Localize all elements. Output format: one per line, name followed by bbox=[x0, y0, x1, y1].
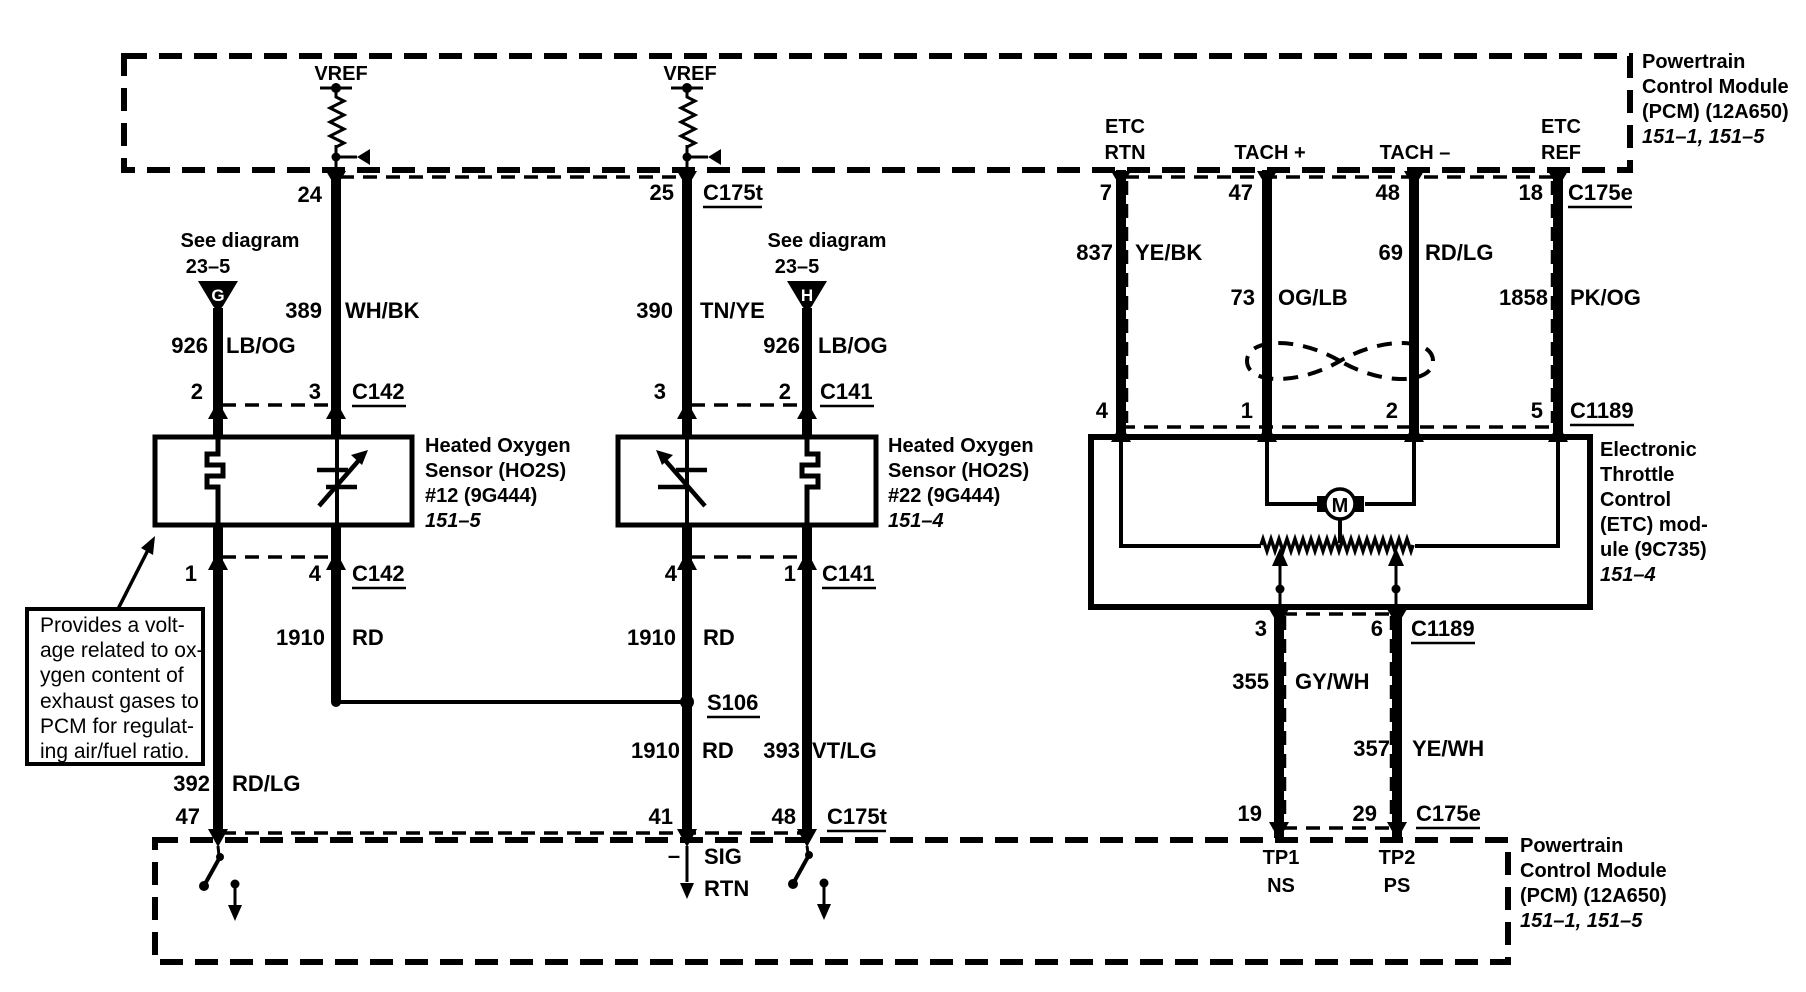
pin label 48 (top) bbox=[1376, 180, 1400, 205]
pin label 2 (C1189 top) bbox=[1386, 398, 1398, 423]
svg-text:PCM for regulat-: PCM for regulat- bbox=[40, 715, 194, 738]
svg-text:2: 2 bbox=[191, 379, 203, 404]
svg-text:151–4: 151–4 bbox=[888, 510, 944, 532]
pin label 2 (C141 top) bbox=[779, 379, 791, 404]
pin label 25 bbox=[650, 180, 674, 205]
svg-text:1910: 1910 bbox=[627, 625, 676, 650]
svg-text:ETC: ETC bbox=[1541, 116, 1581, 138]
net label TP2 PS bbox=[1379, 847, 1416, 897]
pin label 3 (C142 top) bbox=[309, 379, 321, 404]
ETC internal wire to motor (left) bbox=[1267, 437, 1317, 504]
HO2S #12 label bbox=[425, 435, 571, 532]
svg-text:WH/BK: WH/BK bbox=[345, 298, 420, 323]
svg-text:RD: RD bbox=[703, 625, 735, 650]
svg-text:Heated Oxygen: Heated Oxygen bbox=[888, 435, 1034, 457]
triangle connector H bbox=[787, 281, 827, 312]
svg-text:YE/BK: YE/BK bbox=[1135, 240, 1202, 265]
wire label 926 LB/OG (left) bbox=[171, 333, 295, 358]
see diagram note (middle) bbox=[768, 230, 887, 278]
variable sensing element (HO2S#22) bbox=[656, 437, 707, 525]
svg-text:1: 1 bbox=[1241, 398, 1253, 423]
svg-text:age related to ox-: age related to ox- bbox=[40, 639, 203, 662]
connector label C175t (top) bbox=[703, 180, 764, 207]
wire label 69 RD/LG bbox=[1379, 240, 1494, 265]
ETC internal wire to motor (right) bbox=[1365, 437, 1414, 504]
wire 1858 PK/OG (PCM 18 ETC REF to ETC 5) bbox=[1553, 170, 1563, 437]
pin label 4 (C1189 top) bbox=[1096, 398, 1109, 423]
splice S106 bbox=[331, 695, 694, 709]
svg-text:(PCM) (12A650): (PCM) (12A650) bbox=[1520, 885, 1667, 907]
connector label C175e (bottom) bbox=[1416, 801, 1481, 828]
connector C175e dashed line (bottom) bbox=[1283, 826, 1393, 829]
svg-text:C142: C142 bbox=[352, 379, 405, 404]
connector C142 dashed line (top) bbox=[222, 403, 332, 406]
twisted pair symbol (TACH+/TACH-) bbox=[1247, 343, 1433, 379]
SIG RTN label bbox=[668, 843, 749, 901]
svg-text:C1189: C1189 bbox=[1411, 616, 1475, 641]
pin arrow PCM 41 (bottom) bbox=[677, 829, 697, 847]
connector C141 dashed line (top) bbox=[691, 403, 802, 406]
svg-text:41: 41 bbox=[649, 804, 673, 829]
svg-text:C175e: C175e bbox=[1416, 801, 1481, 826]
triangle connector G bbox=[198, 281, 238, 312]
wire 392 RD/LG (HO2S#12 pin 1 to PCM 47) bbox=[213, 525, 223, 838]
svg-text:–: – bbox=[668, 843, 680, 868]
pin label 18 bbox=[1519, 180, 1543, 205]
wire label 389 WH/BK bbox=[285, 298, 419, 323]
wire 390 TN/YE (PCM 25 to HO2S#22 pin 3) bbox=[682, 170, 692, 437]
connector C175e dashed line (top) bbox=[1125, 175, 1554, 178]
PCM top module box (Powertrain Control Module) bbox=[124, 56, 1630, 170]
pin label 1 (C141 bottom) bbox=[784, 561, 796, 586]
svg-text:48: 48 bbox=[1376, 180, 1400, 205]
potentiometer wiper arrow (TP2) bbox=[1388, 548, 1404, 606]
svg-text:47: 47 bbox=[1229, 180, 1253, 205]
svg-text:#12 (9G444): #12 (9G444) bbox=[425, 485, 537, 507]
pin arrow PCM 48 (TACH-) bbox=[1404, 171, 1424, 188]
pin arrow PCM 25 bbox=[677, 171, 697, 188]
svg-text:29: 29 bbox=[1353, 801, 1377, 826]
pin label 1 (C1189 top) bbox=[1241, 398, 1253, 423]
pin arrow ETC 1 bbox=[1257, 423, 1277, 442]
svg-text:24: 24 bbox=[298, 182, 323, 207]
wire label 393 VT/LG bbox=[763, 738, 877, 763]
svg-text:357: 357 bbox=[1353, 736, 1390, 761]
svg-text:ing air/fuel ratio.: ing air/fuel ratio. bbox=[40, 740, 189, 763]
wire label 837 YE/BK bbox=[1076, 240, 1202, 265]
pin arrow PCM 19 bbox=[1269, 822, 1289, 840]
connector label C1189 (bottom) bbox=[1411, 616, 1475, 643]
motor M1 bbox=[1317, 489, 1364, 543]
svg-text:VT/LG: VT/LG bbox=[812, 738, 877, 763]
svg-text:C141: C141 bbox=[822, 561, 875, 586]
resistor (VREF pull-up 1) bbox=[330, 88, 344, 152]
wire label 392 RD/LG bbox=[173, 771, 300, 796]
pin label 47 (bottom) bbox=[176, 804, 200, 829]
ETC module box (Electronic Throttle Control) bbox=[1091, 437, 1590, 607]
svg-text:926: 926 bbox=[171, 333, 208, 358]
node junction with output stub 1 bbox=[332, 145, 371, 170]
svg-text:3: 3 bbox=[1255, 616, 1267, 641]
resistor (VREF pull-up 2) bbox=[681, 88, 695, 152]
wire 357 YE/WH (ETC 6 to PCM 29) bbox=[1392, 607, 1402, 838]
pin arrow ETC 2 bbox=[1404, 423, 1424, 442]
svg-text:Provides a volt-: Provides a volt- bbox=[40, 614, 185, 637]
connector C175t dashed line (bottom) bbox=[222, 831, 803, 834]
HO2S #22 sensor box bbox=[618, 437, 876, 525]
svg-text:18: 18 bbox=[1519, 180, 1543, 205]
pin label 24 bbox=[298, 182, 323, 207]
pin label 3 (C141 top) bbox=[654, 379, 666, 404]
svg-text:2: 2 bbox=[779, 379, 791, 404]
svg-text:OG/LB: OG/LB bbox=[1278, 285, 1348, 310]
pin arrow PCM 48 (bottom) bbox=[797, 829, 817, 847]
svg-text:355: 355 bbox=[1232, 669, 1269, 694]
harness dashed outline (right wire group) bbox=[1127, 181, 1552, 423]
svg-text:1910: 1910 bbox=[276, 625, 325, 650]
svg-text:389: 389 bbox=[285, 298, 322, 323]
wire 389 WH/BK (PCM 24 to HO2S#12 pin 3) bbox=[331, 170, 341, 437]
svg-text:Control Module: Control Module bbox=[1520, 860, 1667, 882]
svg-text:23–5: 23–5 bbox=[775, 256, 820, 278]
svg-text:Sensor (HO2S): Sensor (HO2S) bbox=[425, 460, 566, 482]
splice label S106 bbox=[707, 690, 760, 717]
svg-text:Sensor (HO2S): Sensor (HO2S) bbox=[888, 460, 1029, 482]
connector label C1189 (top) bbox=[1570, 398, 1634, 425]
svg-text:TP1: TP1 bbox=[1263, 847, 1300, 869]
wire 1910 RD / SIG RTN (HO2S#22 pin 4 to PCM 41) bbox=[682, 525, 692, 838]
pin label 7 bbox=[1100, 180, 1112, 205]
wire label 926 LB/OG (middle) bbox=[763, 333, 887, 358]
pin label 47 (top) bbox=[1229, 180, 1253, 205]
svg-text:ETC: ETC bbox=[1105, 116, 1145, 138]
svg-text:926: 926 bbox=[763, 333, 800, 358]
svg-text:151–1, 151–5: 151–1, 151–5 bbox=[1642, 126, 1765, 148]
switch to ground (PCM pin 48) bbox=[788, 846, 813, 889]
wire 926 LB/OG (H to HO2S#22 pin 2) bbox=[802, 308, 812, 437]
svg-text:4: 4 bbox=[1096, 398, 1109, 423]
svg-text:1: 1 bbox=[185, 561, 197, 586]
pin arrow C142-3 bbox=[326, 401, 346, 419]
connector label C141 (bottom) bbox=[822, 561, 876, 588]
svg-text:69: 69 bbox=[1379, 240, 1403, 265]
svg-text:ule (9C735): ule (9C735) bbox=[1600, 539, 1707, 561]
PCM bottom module label bbox=[1520, 835, 1667, 932]
wire 69 RD/LG (PCM 48 TACH- to ETC 2) bbox=[1409, 170, 1419, 437]
wire label 1858 PK/OG bbox=[1499, 285, 1641, 310]
wire label 73 OG/LB bbox=[1231, 285, 1348, 310]
svg-text:C175t: C175t bbox=[827, 804, 888, 829]
pin label 48 (bottom) bbox=[772, 804, 796, 829]
svg-text:6: 6 bbox=[1371, 616, 1383, 641]
connector label C142 (bottom) bbox=[352, 561, 406, 588]
pin label 2 (C142 top) bbox=[191, 379, 203, 404]
svg-text:PS: PS bbox=[1384, 875, 1411, 897]
VREF terminal node 2 bbox=[671, 83, 703, 93]
net label ETC RTN bbox=[1104, 116, 1145, 164]
svg-text:M: M bbox=[1332, 495, 1349, 517]
PCM bottom module box (Powertrain Control Module) bbox=[155, 840, 1508, 962]
svg-text:RD/LG: RD/LG bbox=[1425, 240, 1493, 265]
pin arrow ETC 3 (out) bbox=[1269, 609, 1289, 626]
ETC module label bbox=[1600, 439, 1708, 586]
svg-text:23–5: 23–5 bbox=[186, 256, 231, 278]
svg-text:RD: RD bbox=[702, 738, 734, 763]
pin arrow C142-2 bbox=[208, 401, 228, 419]
wire 926 LB/OG (G to HO2S#12 pin 2) bbox=[213, 308, 223, 437]
VREF supply 2 label bbox=[663, 63, 716, 85]
wire label 1910 RD (middle lower) bbox=[631, 738, 734, 763]
svg-text:C1189: C1189 bbox=[1570, 398, 1634, 423]
pin arrow C141-2 bbox=[797, 401, 817, 419]
svg-text:#22 (9G444): #22 (9G444) bbox=[888, 485, 1000, 507]
pin arrow ETC 4 bbox=[1111, 423, 1131, 442]
svg-text:SIG: SIG bbox=[704, 844, 742, 869]
pin arrow PCM 18 bbox=[1548, 171, 1568, 188]
ETC internal wire to potentiometer (right) bbox=[1415, 437, 1558, 546]
svg-text:TACH –: TACH – bbox=[1380, 142, 1451, 164]
wire 355 GY/WH (ETC 3 to PCM 19) bbox=[1274, 607, 1284, 838]
svg-text:VREF: VREF bbox=[663, 63, 716, 85]
svg-text:25: 25 bbox=[650, 180, 674, 205]
connector label C175e (top) bbox=[1568, 180, 1633, 207]
svg-text:Heated Oxygen: Heated Oxygen bbox=[425, 435, 571, 457]
svg-text:47: 47 bbox=[176, 804, 200, 829]
svg-text:TACH +: TACH + bbox=[1234, 142, 1305, 164]
ETC internal wire to potentiometer (left) bbox=[1121, 437, 1261, 546]
svg-text:LB/OG: LB/OG bbox=[226, 333, 296, 358]
connector C142 dashed line (bottom) bbox=[222, 555, 332, 558]
pin arrow PCM 29 bbox=[1387, 822, 1407, 840]
svg-text:See diagram: See diagram bbox=[181, 230, 300, 252]
svg-text:73: 73 bbox=[1231, 285, 1255, 310]
svg-text:4: 4 bbox=[665, 561, 678, 586]
pin label 6 (C1189 bottom) bbox=[1371, 616, 1383, 641]
svg-text:YE/WH: YE/WH bbox=[1412, 736, 1484, 761]
svg-text:C175e: C175e bbox=[1568, 180, 1633, 205]
pin arrow PCM 24 bbox=[326, 171, 346, 188]
svg-text:RTN: RTN bbox=[704, 876, 749, 901]
wire 393 VT/LG (HO2S#22 pin 1 to PCM 48) bbox=[802, 525, 812, 838]
pin arrow PCM 47 (bottom) bbox=[208, 829, 228, 847]
potentiometer (throttle position) bbox=[1261, 539, 1413, 551]
pin arrow C142-1 bbox=[208, 551, 228, 570]
node junction with output stub 2 bbox=[683, 145, 722, 170]
svg-text:Control Module: Control Module bbox=[1642, 76, 1789, 98]
HO2S #22 label bbox=[888, 435, 1034, 532]
wire label 1910 RD (left) bbox=[276, 625, 384, 650]
wire 837 YE/BK (PCM 7 ETC RTN to ETC 4) bbox=[1116, 170, 1126, 437]
callout box (oxygen sensor note) bbox=[27, 609, 203, 764]
switch to ground (PCM pin 47) bbox=[199, 846, 224, 891]
heater element (HO2S#22) bbox=[802, 437, 818, 525]
svg-text:See diagram: See diagram bbox=[768, 230, 887, 252]
svg-text:RTN: RTN bbox=[1104, 142, 1145, 164]
svg-text:3: 3 bbox=[654, 379, 666, 404]
svg-text:G: G bbox=[211, 286, 224, 305]
svg-text:151–5: 151–5 bbox=[425, 510, 481, 532]
svg-text:393: 393 bbox=[763, 738, 800, 763]
svg-text:390: 390 bbox=[636, 298, 673, 323]
svg-text:ygen content of: ygen content of bbox=[40, 664, 184, 687]
pin label 19 bbox=[1238, 801, 1262, 826]
svg-text:TP2: TP2 bbox=[1379, 847, 1416, 869]
pin label 4 (C142 bottom) bbox=[309, 561, 322, 586]
svg-text:PK/OG: PK/OG bbox=[1570, 285, 1641, 310]
pin arrow C142-4 bbox=[326, 551, 346, 570]
pin label 29 bbox=[1353, 801, 1377, 826]
wire 73 OG/LB (PCM 47 TACH+ to ETC 1) bbox=[1262, 170, 1272, 437]
svg-text:4: 4 bbox=[309, 561, 322, 586]
wire label 390 TN/YE bbox=[636, 298, 765, 323]
VREF supply 1 label bbox=[314, 63, 367, 85]
svg-text:392: 392 bbox=[173, 771, 210, 796]
HO2S #12 sensor box bbox=[155, 437, 412, 525]
svg-text:837: 837 bbox=[1076, 240, 1113, 265]
wire label 355 GY/WH bbox=[1232, 669, 1369, 694]
pin arrow ETC 6 (out) bbox=[1387, 609, 1407, 626]
heater element (HO2S#12) bbox=[207, 437, 223, 525]
svg-text:48: 48 bbox=[772, 804, 796, 829]
connector label C175t (bottom) bbox=[827, 804, 888, 831]
variable sensing element (HO2S#12) bbox=[317, 437, 368, 525]
harness dashed outline (TP wire pair) bbox=[1285, 616, 1391, 824]
wire 1910 RD (HO2S#12 pin 4 to S106) bbox=[331, 525, 341, 702]
connector C1189 dashed line (top) bbox=[1121, 425, 1558, 428]
svg-text:1910: 1910 bbox=[631, 738, 680, 763]
svg-text:19: 19 bbox=[1238, 801, 1262, 826]
svg-text:Powertrain: Powertrain bbox=[1520, 835, 1623, 857]
svg-text:RD: RD bbox=[352, 625, 384, 650]
callout arrow bbox=[118, 536, 155, 609]
connector label C141 (top) bbox=[820, 379, 874, 406]
connector C141 dashed line (bottom) bbox=[691, 555, 802, 558]
svg-text:NS: NS bbox=[1267, 875, 1295, 897]
svg-text:Powertrain: Powertrain bbox=[1642, 51, 1745, 73]
pin label 5 (C1189 top) bbox=[1531, 398, 1543, 423]
net label TP1 NS bbox=[1263, 847, 1300, 897]
pin label 4 (C141 bottom) bbox=[665, 561, 678, 586]
ground arrow (near pin 48) bbox=[817, 879, 831, 921]
pin arrow ETC 5 bbox=[1548, 423, 1568, 442]
pin arrow PCM 7 bbox=[1111, 171, 1131, 188]
svg-text:GY/WH: GY/WH bbox=[1295, 669, 1370, 694]
pin label 41 (bottom) bbox=[649, 804, 673, 829]
svg-text:Throttle: Throttle bbox=[1600, 464, 1674, 486]
pin label 3 (C1189 bottom) bbox=[1255, 616, 1267, 641]
potentiometer wiper arrow (TP1) bbox=[1272, 548, 1288, 606]
svg-text:1858: 1858 bbox=[1499, 285, 1548, 310]
svg-text:C141: C141 bbox=[820, 379, 873, 404]
svg-text:RD/LG: RD/LG bbox=[232, 771, 300, 796]
pin arrow C141-3 bbox=[677, 401, 697, 419]
svg-text:5: 5 bbox=[1531, 398, 1543, 423]
wire label 1910 RD (middle upper) bbox=[627, 625, 735, 650]
svg-text:C175t: C175t bbox=[703, 180, 764, 205]
svg-text:LB/OG: LB/OG bbox=[818, 333, 888, 358]
PCM top module label bbox=[1642, 51, 1789, 148]
pin arrow PCM 47 (TACH+) bbox=[1257, 171, 1277, 188]
svg-text:C142: C142 bbox=[352, 561, 405, 586]
svg-text:151–4: 151–4 bbox=[1600, 564, 1656, 586]
svg-text:Control: Control bbox=[1600, 489, 1671, 511]
svg-text:7: 7 bbox=[1100, 180, 1112, 205]
VREF terminal node 1 bbox=[320, 83, 352, 93]
svg-text:1: 1 bbox=[784, 561, 796, 586]
pin arrow C141-4 bbox=[677, 551, 697, 570]
wire label 357 YE/WH bbox=[1353, 736, 1484, 761]
svg-text:3: 3 bbox=[309, 379, 321, 404]
svg-text:REF: REF bbox=[1541, 142, 1581, 164]
net label TACH + bbox=[1234, 142, 1305, 164]
connector label C142 (top) bbox=[352, 379, 406, 406]
svg-text:H: H bbox=[801, 286, 813, 305]
svg-text:VREF: VREF bbox=[314, 63, 367, 85]
net label ETC REF bbox=[1541, 116, 1581, 164]
connector C175t dashed line (top) bbox=[340, 175, 683, 178]
ground arrow (near pin 47) bbox=[228, 880, 242, 922]
svg-text:151–1, 151–5: 151–1, 151–5 bbox=[1520, 910, 1643, 932]
svg-text:exhaust gases to: exhaust gases to bbox=[40, 690, 199, 713]
pin label 1 (C142 bottom) bbox=[185, 561, 197, 586]
pin arrow C141-1 bbox=[797, 551, 817, 570]
see diagram note (left) bbox=[181, 230, 300, 278]
svg-text:TN/YE: TN/YE bbox=[700, 298, 765, 323]
net label TACH - bbox=[1380, 142, 1451, 164]
ground arrow (SIG RTN pin 41) bbox=[680, 846, 694, 899]
svg-text:S106: S106 bbox=[707, 690, 758, 715]
svg-text:Electronic: Electronic bbox=[1600, 439, 1697, 461]
svg-text:2: 2 bbox=[1386, 398, 1398, 423]
connector C1189 dashed line (bottom) bbox=[1283, 612, 1393, 615]
svg-text:(PCM) (12A650): (PCM) (12A650) bbox=[1642, 101, 1789, 123]
svg-text:(ETC) mod-: (ETC) mod- bbox=[1600, 514, 1708, 536]
